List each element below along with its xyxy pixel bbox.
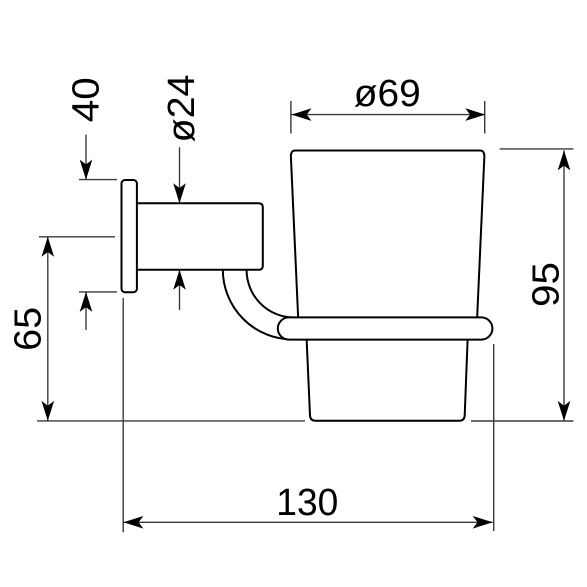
dimension 130 label [276, 482, 338, 524]
dimension ø24 leader top [179, 147, 181, 203]
dimension ø69 label [354, 73, 421, 115]
dimension 65 line [47, 237, 49, 421]
dimension ø69 extension line left [290, 101, 292, 134]
dimension ø24 label [161, 75, 203, 143]
dimension 130 arrow left [123, 516, 143, 529]
dimension 65 arrow top [42, 237, 55, 257]
dimension 40 leader bottom [85, 292, 87, 330]
svg-text:ø24: ø24 [161, 75, 203, 143]
dimension 130 arrow right [473, 516, 493, 529]
dimension 95 extension line top [500, 148, 574, 150]
mounting arm post [136, 203, 263, 270]
dimension ø69 arrow left [292, 108, 312, 121]
dimension ø24 leader bottom [179, 270, 181, 310]
dimension 95 arrow top [558, 150, 571, 170]
dimension 130 extension line left [122, 298, 124, 532]
holder bend arm outer curve [223, 270, 293, 340]
svg-text:95: 95 [525, 262, 567, 307]
dimension 95 extension line bottom [471, 420, 573, 422]
dimension 65 arrow bottom [42, 401, 55, 421]
dimension 65 label [7, 307, 49, 351]
wall plate flange [122, 180, 137, 292]
dimension 40 label [66, 77, 108, 122]
dimension 95 arrow bottom [558, 401, 571, 421]
dimension 40 tick top [79, 179, 117, 181]
dimension ø69 extension line right [484, 101, 486, 134]
glass tumbler base [306, 332, 468, 421]
svg-text:40: 40 [66, 77, 108, 122]
dimension 40 leader top [85, 135, 87, 180]
svg-text:130: 130 [276, 482, 338, 524]
dimension 65 tick bottom [37, 420, 305, 422]
dimension ø24 arrow bottom [173, 270, 186, 290]
dimension ø69 line [292, 114, 486, 116]
dimension 130 extension line right [493, 344, 495, 531]
glass tumbler upper body [291, 151, 484, 335]
holder ring bar [278, 317, 493, 339]
dimension 95 line [563, 150, 565, 421]
dimension 40 tick bottom [79, 291, 117, 293]
dimension 40 arrow top [80, 160, 93, 180]
dimension 40 arrow bottom [80, 292, 93, 312]
dimension 95 label [525, 262, 567, 307]
svg-text:65: 65 [7, 307, 49, 351]
svg-text:ø69: ø69 [354, 73, 421, 115]
dimension 65 tick top [39, 236, 115, 238]
holder bend arm inner curve [247, 270, 295, 318]
dimension 130 line [123, 521, 492, 523]
dimension ø69 arrow right [465, 108, 485, 121]
dimension ø24 arrow top [173, 183, 186, 203]
